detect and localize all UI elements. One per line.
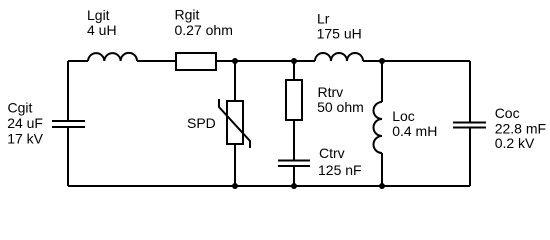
node A (SPD tap, top) <box>232 58 238 64</box>
svg-text:SPD: SPD <box>187 115 216 131</box>
svg-text:0.27 ohm: 0.27 ohm <box>175 22 233 38</box>
node B (TRV tap, top) <box>291 58 297 64</box>
svg-text:Rgit: Rgit <box>175 7 200 23</box>
wire left branch lower <box>67 128 69 186</box>
svg-text:17 kV: 17 kV <box>7 130 43 146</box>
svg-text:0.2 kV: 0.2 kV <box>495 135 535 151</box>
svg-text:Rtrv: Rtrv <box>318 84 344 100</box>
wire Lgit to Rgit <box>137 60 176 62</box>
wire node C to top-right corner <box>382 60 470 62</box>
svg-text:175 uH: 175 uH <box>317 26 362 42</box>
wire Loc to bottom <box>381 153 383 186</box>
inductor Lr <box>315 53 363 61</box>
capacitor Coc <box>453 123 486 128</box>
svg-text:125 nF: 125 nF <box>318 162 362 178</box>
svg-text:0.4 mH: 0.4 mH <box>392 123 437 139</box>
resistor Rtrv <box>286 80 302 120</box>
wire top-left segment <box>68 60 88 62</box>
resistor Rgit <box>176 53 216 70</box>
wire SPD to bottom <box>234 144 236 186</box>
svg-text:Lr: Lr <box>317 11 330 27</box>
wire Rgit to node A <box>216 60 235 62</box>
wire node B to Lr <box>294 60 315 62</box>
svg-text:4 uH: 4 uH <box>87 22 117 38</box>
varistor SPD body <box>227 101 243 144</box>
wire node A to node B <box>235 60 294 62</box>
inductor Lgit <box>88 53 137 61</box>
wire node A to SPD <box>234 61 236 101</box>
capacitor Ctrv <box>278 161 310 167</box>
node C bottom junction <box>379 183 385 189</box>
wire Lr to node C <box>363 60 382 62</box>
wire node C to Loc <box>381 61 383 102</box>
svg-text:24 uF: 24 uF <box>7 115 43 131</box>
wire right branch upper <box>469 61 471 122</box>
svg-text:Lgit: Lgit <box>87 7 110 23</box>
inductor Loc <box>374 102 383 153</box>
svg-text:Cgit: Cgit <box>8 100 33 116</box>
svg-text:50 ohm: 50 ohm <box>317 99 364 115</box>
wire left branch upper <box>67 61 69 120</box>
varistor SPD diagonal stroke <box>219 99 250 148</box>
svg-text:Ctrv: Ctrv <box>319 145 345 161</box>
capacitor Cgit <box>52 121 85 127</box>
node C (Loc tap, top) <box>379 58 385 64</box>
svg-text:Coc: Coc <box>495 105 520 121</box>
svg-text:Loc: Loc <box>392 108 415 124</box>
wire node B to Rtrv <box>293 61 295 80</box>
wire bottom <box>68 185 470 187</box>
wire right branch lower <box>469 129 471 187</box>
node A bottom junction <box>232 183 238 189</box>
node B bottom junction <box>291 183 297 189</box>
wire Rtrv to Ctrv <box>293 120 295 160</box>
svg-text:22.8 mF: 22.8 mF <box>495 120 546 136</box>
wire Ctrv to bottom <box>293 167 295 186</box>
